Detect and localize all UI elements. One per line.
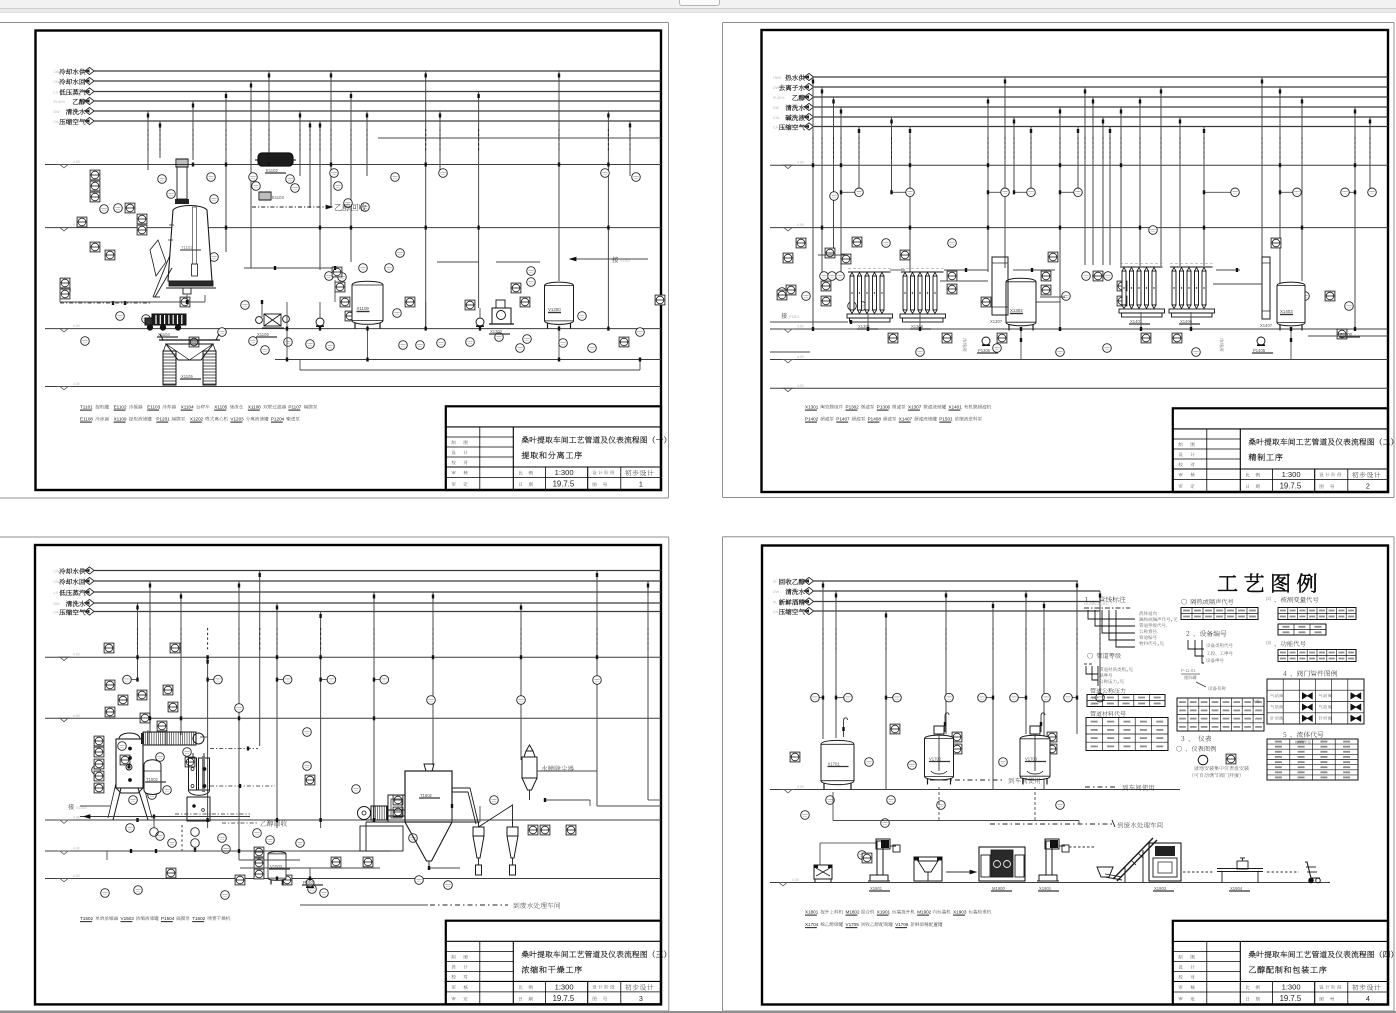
svg-text:E1103: E1103 <box>272 195 284 200</box>
elevation line y386.5 <box>45 382 661 390</box>
svg-text:X1301: X1301 <box>620 259 630 263</box>
dashdot line <box>60 301 150 305</box>
pump P1204 <box>476 318 484 327</box>
svg-text:PL: PL <box>773 601 777 605</box>
utility header 清洗水 <box>54 107 662 114</box>
instrument circles <box>801 693 1105 859</box>
svg-text:X1104: X1104 <box>181 405 194 410</box>
svg-text:P1204: P1204 <box>271 417 285 422</box>
pipe runs <box>107 730 661 879</box>
svg-text:V1200: V1200 <box>548 307 561 312</box>
svg-text:4.00: 4.00 <box>73 382 80 386</box>
svg-text:4.00: 4.00 <box>73 160 80 164</box>
svg-text:LS: LS <box>54 91 59 95</box>
process column <box>1260 257 1273 328</box>
evaporator T1501 <box>108 733 152 820</box>
incline conveyor <box>1113 838 1157 883</box>
svg-text:(2): (2) <box>1266 596 1272 601</box>
vessel T1502 <box>144 760 166 795</box>
to workshop note <box>930 777 1040 783</box>
connection tag <box>68 804 110 810</box>
svg-text:X1306: X1306 <box>911 324 924 329</box>
svg-text:.: . <box>1166 623 1167 628</box>
process pipes vertical <box>147 71 631 329</box>
svg-text:X1901: X1901 <box>877 910 891 915</box>
svg-text:X1903: X1903 <box>1154 886 1167 891</box>
sheet2 paper and frame <box>723 23 1395 498</box>
elevation line y388.3 <box>770 384 1388 392</box>
svg-text:X1109: X1109 <box>357 306 370 311</box>
svg-text:X1407: X1407 <box>1260 323 1273 328</box>
svg-text:3: 3 <box>639 994 643 1003</box>
feed hopper X1800 <box>814 865 832 882</box>
svg-text:T1602: T1602 <box>420 793 433 798</box>
membrane filter bank X1306 <box>900 269 946 330</box>
svg-text:X1801: X1801 <box>805 910 819 915</box>
svg-text:X1701: X1701 <box>828 762 841 767</box>
concentrate note <box>963 338 1224 351</box>
svg-text:PL50%: PL50% <box>54 100 66 104</box>
packaging ground line <box>770 878 1330 886</box>
elevation line y657.2 <box>45 653 661 661</box>
instrument squares <box>94 643 576 885</box>
legend fluid codes <box>1267 731 1358 780</box>
svg-text:X1407: X1407 <box>899 417 913 422</box>
title block <box>446 921 666 1005</box>
membrane filter bank X1401 <box>1119 264 1165 325</box>
powder transfer line <box>820 843 876 865</box>
svg-text:E1103: E1103 <box>147 405 160 410</box>
svg-text:E1102: E1102 <box>114 405 127 410</box>
title block <box>1173 408 1393 492</box>
instrument squares <box>60 170 665 347</box>
svg-text:T1502: T1502 <box>146 777 159 782</box>
tote bin <box>914 857 942 881</box>
svg-text:19.7.5: 19.7.5 <box>553 994 575 1003</box>
dust remover label <box>541 766 574 772</box>
process pipes vertical <box>812 77 1371 329</box>
legend measured variable codes <box>1266 596 1356 635</box>
svg-text:HWS: HWS <box>773 76 782 80</box>
utility header 冷却水供 <box>54 67 662 74</box>
line to waste <box>275 359 661 361</box>
svg-text:P1504: P1504 <box>161 916 175 921</box>
utility header 乙醇 <box>773 93 1388 100</box>
svg-text:X1105: X1105 <box>181 374 193 379</box>
svg-text:X1202: X1202 <box>490 329 503 334</box>
utility header 冷却水回 <box>54 577 662 584</box>
svg-text:4: 4 <box>1366 994 1370 1003</box>
process column <box>990 257 1008 324</box>
utility header 新鲜酒精 <box>773 598 1100 605</box>
pump P1305 <box>977 337 998 353</box>
tank V1702 <box>925 713 954 785</box>
transfer arrow <box>946 870 976 874</box>
tank V1503 <box>268 852 290 885</box>
dashed arrows <box>1183 871 1299 873</box>
utility header 低压蒸汽 <box>54 588 662 595</box>
svg-text:4.00: 4.00 <box>797 384 804 388</box>
svg-text:V1703: V1703 <box>1025 757 1038 762</box>
svg-text:，: ， <box>1157 641 1162 647</box>
separator columns <box>187 753 210 821</box>
svg-text:19.7.5: 19.7.5 <box>1280 482 1302 491</box>
svg-text:1:300: 1:300 <box>1282 470 1301 479</box>
svg-text:，: ， <box>1117 679 1122 685</box>
utility header 压缩空气 <box>54 608 662 615</box>
svg-text:1:300: 1:300 <box>555 468 574 477</box>
dryer frame <box>360 822 480 851</box>
elevation line y359.5 <box>770 355 1388 363</box>
elevation line y328.6 <box>45 324 661 332</box>
svg-text:V1706: V1706 <box>895 922 909 927</box>
to waste note <box>300 902 560 908</box>
utility header 清洗水 <box>54 599 662 606</box>
svg-text:1: 1 <box>639 480 643 489</box>
duct to cyclones <box>452 788 513 827</box>
svg-text:4.00: 4.00 <box>73 874 80 878</box>
utility header 压缩空气 <box>773 123 1388 130</box>
feed arrow line <box>80 815 250 837</box>
svg-text:P1501: P1501 <box>939 417 953 422</box>
legend valve glyph table <box>1267 679 1364 724</box>
utility header 回收乙醇 <box>773 577 1078 584</box>
instrument stubs <box>819 696 1078 700</box>
cyclone separator <box>507 822 518 875</box>
svg-text:M1802: M1802 <box>846 910 860 915</box>
check weigher X1904 <box>1217 858 1263 891</box>
instrument circles <box>62 169 645 355</box>
svg-text:LS-2502-50-H1: LS-2502-50-H1 <box>1084 602 1107 606</box>
svg-text:DW: DW <box>773 106 780 110</box>
ethanol recovery line <box>252 204 367 212</box>
blower <box>358 806 406 820</box>
connection tag <box>781 313 799 319</box>
elevation line y718.3 <box>45 714 661 722</box>
svg-text:CA: CA <box>54 611 60 615</box>
cooler E1103 <box>259 192 284 200</box>
svg-text:X1105: X1105 <box>214 405 227 410</box>
pump P1405 <box>1252 337 1273 353</box>
svg-text:P1306: P1306 <box>877 405 891 410</box>
tank X1403 <box>1277 282 1305 330</box>
sheet3 paper and frame <box>0 537 669 1011</box>
equipment list line2 <box>805 922 942 928</box>
svg-text:P1408: P1408 <box>868 417 882 422</box>
svg-text:X1704: X1704 <box>805 922 819 927</box>
legend insulation codes <box>1181 599 1258 620</box>
svg-text:X1109: X1109 <box>114 417 127 422</box>
legend pipe material table <box>1086 711 1168 751</box>
air heater <box>388 795 405 822</box>
residue bin X1105 <box>159 334 220 385</box>
twin filter X1106 <box>256 314 290 337</box>
utility header 冷却水供 <box>54 567 662 574</box>
instrument circles <box>778 188 1377 356</box>
bucket elevator X1801 <box>868 839 900 891</box>
separator feed tank V1200 <box>545 282 574 329</box>
elevation line y164.5 <box>45 160 661 168</box>
svg-text:4.00: 4.00 <box>73 816 80 820</box>
svg-text:V1203: V1203 <box>230 417 244 422</box>
insulated pipe dashes <box>148 129 630 152</box>
mid runs <box>244 259 648 268</box>
svg-text:P1201: P1201 <box>156 417 170 422</box>
tank X1302 <box>1006 278 1036 330</box>
svg-text:4.00: 4.00 <box>73 714 80 718</box>
elevation line y227.6 <box>45 223 661 231</box>
pump P1601 <box>302 879 323 888</box>
instrument stubs <box>840 190 1356 194</box>
ground line <box>770 785 1180 793</box>
pipe runs <box>60 280 640 370</box>
legend sec2 equipment number <box>1181 630 1233 690</box>
utility header 冷却水回 <box>54 77 662 84</box>
svg-text:CA: CA <box>773 610 779 614</box>
condenser E1102 <box>255 153 296 173</box>
svg-text:V1705: V1705 <box>846 922 860 927</box>
svg-text:X1901: X1901 <box>1039 886 1052 891</box>
svg-text:4.00: 4.00 <box>73 653 80 657</box>
instrument stubs <box>131 678 380 682</box>
svg-text:PL50%: PL50% <box>773 96 785 100</box>
elevation line y329 <box>770 325 1388 333</box>
equipment list line2 <box>805 417 982 423</box>
recovery note <box>222 820 287 826</box>
process pipes vertical <box>136 571 649 861</box>
utility header 热水供 <box>773 73 1388 80</box>
title block <box>446 406 666 490</box>
svg-text:T1602: T1602 <box>192 916 205 921</box>
valve marks <box>186 163 641 362</box>
utility header 低压蒸汽 <box>54 88 662 95</box>
pump P1201 <box>316 318 324 327</box>
equipment list line2 <box>80 417 300 423</box>
dashdot runs <box>175 747 275 815</box>
svg-text:CAL: CAL <box>773 116 780 120</box>
svg-text:，: ， <box>1126 667 1131 673</box>
heater E1501 <box>141 721 204 745</box>
connection tag <box>570 256 630 263</box>
legend valve table header <box>1283 670 1337 676</box>
svg-text:4.00: 4.00 <box>797 223 804 227</box>
equipment list line1 <box>805 910 991 916</box>
instrument squares <box>790 724 1057 863</box>
bottom gray strip <box>0 1011 1396 1013</box>
svg-text:X1903: X1903 <box>953 910 967 915</box>
utility header 乙醇 <box>54 97 662 104</box>
upper run <box>378 137 661 139</box>
pipe runs <box>0 0 1 1</box>
valve marks <box>812 163 1356 342</box>
svg-text:E1108: E1108 <box>80 417 93 422</box>
svg-text:V1702: V1702 <box>929 757 942 762</box>
svg-text:X1801: X1801 <box>870 886 883 891</box>
dust remover duct <box>537 771 661 800</box>
svg-text:P1405: P1405 <box>1253 348 1266 353</box>
elevation line y878.5 <box>45 874 661 882</box>
svg-text:E1102: E1102 <box>266 168 278 173</box>
legend sec1 pipeline marking <box>1084 596 1177 686</box>
svg-text:LS: LS <box>54 591 59 595</box>
insulated pipe dashes <box>138 628 649 650</box>
svg-text:P1601: P1601 <box>303 880 316 885</box>
waste collection line <box>833 787 1079 824</box>
utility header 去离子水 <box>773 83 1388 90</box>
svg-text:P1305: P1305 <box>978 348 991 353</box>
svg-text:P1501: P1501 <box>789 315 799 319</box>
centrifuge X1202 <box>489 300 514 334</box>
svg-text:M1902: M1902 <box>917 910 931 915</box>
valve marks <box>130 655 598 880</box>
equipment list line1 <box>805 405 991 411</box>
svg-text:X1401: X1401 <box>949 405 963 410</box>
svg-text:2: 2 <box>1366 482 1370 491</box>
bucket elevator X1901 <box>1037 839 1069 891</box>
utility header 清洗水 <box>773 587 1100 594</box>
insulated pipe dashes <box>823 628 1100 652</box>
membrane filter bank X1301 <box>847 269 893 330</box>
svg-text:DW: DW <box>54 110 61 114</box>
label P1500 <box>1339 332 1360 337</box>
elevation line y165.2 <box>770 161 1388 169</box>
svg-text:4.00: 4.00 <box>792 878 799 882</box>
svg-text:P1107: P1107 <box>288 405 301 410</box>
weighing truck X1104 <box>145 314 186 337</box>
svg-text:4.00: 4.00 <box>797 161 804 165</box>
svg-text:4.00: 4.00 <box>73 324 80 328</box>
svg-text:DW: DW <box>54 602 61 606</box>
svg-text:X1106: X1106 <box>248 405 261 410</box>
svg-text:CA: CA <box>54 120 60 124</box>
tank X1701 <box>821 718 854 790</box>
svg-text:19.7.5: 19.7.5 <box>553 480 575 489</box>
svg-text:P-11-01: P-11-01 <box>1181 668 1196 673</box>
svg-text:X1403: X1403 <box>1280 309 1293 314</box>
pipe runs <box>770 255 1388 360</box>
mixer M1900 <box>979 847 1025 891</box>
svg-text:1:300: 1:300 <box>1282 983 1301 992</box>
svg-text:.: . <box>1157 629 1158 634</box>
storage tank X1109 <box>352 281 383 329</box>
svg-text:M1900: M1900 <box>992 886 1005 891</box>
utility header 清洗水 <box>773 103 1388 110</box>
legend function codes <box>1266 640 1356 662</box>
legend equipment category table <box>1177 698 1264 731</box>
browser top toolbar <box>0 0 1396 9</box>
instrument circles <box>92 675 602 899</box>
to waste note <box>990 820 1163 828</box>
dashed feed line <box>1069 846 1095 848</box>
spray dryer T1602 <box>405 764 452 868</box>
svg-text:19.7.5: 19.7.5 <box>1280 994 1302 1003</box>
svg-text:4.00: 4.00 <box>73 847 80 851</box>
svg-text:P1402: P1402 <box>805 417 819 422</box>
svg-text:V1503: V1503 <box>121 916 135 921</box>
utility header 碱洗液 <box>773 113 1388 120</box>
legend pipe pressure table <box>1087 688 1165 707</box>
legend title <box>1218 574 1316 593</box>
svg-text:DW: DW <box>773 590 780 594</box>
equipment list <box>80 916 230 922</box>
membrane filter bank X1406 <box>1169 264 1215 325</box>
svg-text:4.00: 4.00 <box>797 325 804 329</box>
water film dust remover <box>522 745 537 800</box>
title block <box>1173 921 1393 1005</box>
utility header 压缩空气 <box>773 607 1100 614</box>
equipment list line1 <box>80 405 317 411</box>
elevation line y851 <box>45 847 390 855</box>
svg-text:X1302: X1302 <box>1010 308 1023 313</box>
svg-text:X1904: X1904 <box>1230 886 1243 891</box>
svg-text:T1101: T1101 <box>80 405 93 410</box>
insulated pipe dashes <box>813 137 1370 160</box>
elevation line y227.6 <box>770 223 1388 231</box>
svg-text:4.00: 4.00 <box>797 355 804 359</box>
svg-text:X1307: X1307 <box>908 405 922 410</box>
packing machine X1903 <box>1149 843 1181 891</box>
hand trolley <box>1305 862 1320 883</box>
tank V1703 <box>1020 713 1050 785</box>
instrument squares <box>777 237 1347 343</box>
svg-text:X1307: X1307 <box>990 319 1003 324</box>
svg-text:4.00: 4.00 <box>797 785 804 789</box>
svg-text:PL: PL <box>773 580 777 584</box>
svg-text:V1203: V1203 <box>76 806 86 810</box>
cyclone separator <box>473 822 484 875</box>
svg-text:T1101: T1101 <box>181 245 193 250</box>
svg-text:X1106: X1106 <box>257 332 269 337</box>
elevation line y820 <box>45 816 661 824</box>
svg-text:(3): (3) <box>1266 640 1272 645</box>
svg-text:，: ， <box>1171 617 1176 623</box>
svg-text:X1202: X1202 <box>190 417 204 422</box>
svg-text:X1301: X1301 <box>805 405 819 410</box>
svg-text:1:300: 1:300 <box>555 982 574 991</box>
to workshop note2 <box>1085 784 1154 790</box>
svg-text:DW: DW <box>773 86 780 90</box>
dashed drain <box>182 825 199 852</box>
screw feeder <box>1097 867 1122 880</box>
extractor T1101 <box>150 159 216 297</box>
process pipes vertical <box>822 581 1101 790</box>
svg-text:T1502: T1502 <box>80 916 93 921</box>
utility header 压缩空气 <box>54 117 662 124</box>
svg-text:CA: CA <box>773 126 779 130</box>
sheet4 paper and frame <box>723 537 1395 1011</box>
svg-text:P1407: P1407 <box>836 417 850 422</box>
sheet1 paper and frame <box>0 23 669 499</box>
svg-text:P1302: P1302 <box>846 405 860 410</box>
legend instruments <box>1176 735 1248 777</box>
